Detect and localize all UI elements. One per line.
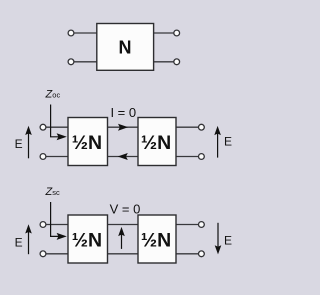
svg-text:½N: ½N [141,230,171,252]
svg-text:E: E [224,233,232,247]
svg-text:sc: sc [52,188,60,197]
svg-text:V = 0: V = 0 [110,202,141,217]
svg-text:N: N [119,38,132,58]
svg-text:E: E [224,135,232,149]
svg-text:½N: ½N [72,132,102,154]
svg-text:½N: ½N [72,230,102,252]
svg-text:oc: oc [52,91,60,100]
svg-text:½N: ½N [141,132,171,154]
svg-text:I = 0: I = 0 [110,105,136,120]
svg-text:E: E [15,137,23,151]
svg-text:E: E [15,236,23,250]
